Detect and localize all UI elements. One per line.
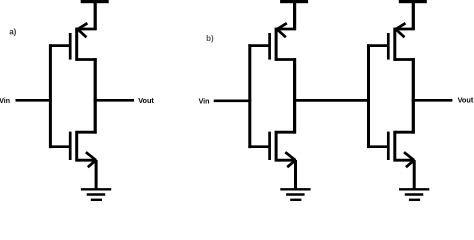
svg-text:a): a) <box>9 28 16 37</box>
wire input bus (inverter 1) <box>49 44 52 148</box>
svg-text:Vin: Vin <box>0 98 10 105</box>
wire input bus (inverter 2) <box>248 44 251 148</box>
transistor M2P (PMOS) <box>270 23 296 61</box>
wire VDD to PMOS M3P source <box>412 2 415 30</box>
VDD power symbol (inverter 1) <box>81 0 109 3</box>
wire Vin lead (inverter 2) <box>214 99 252 102</box>
wire VDD to PMOS M2P source <box>293 2 296 30</box>
svg-text:b): b) <box>206 34 214 43</box>
wire gate lead to PMOS M1P <box>49 44 70 47</box>
ground symbol (inverter 2) <box>280 189 310 200</box>
wire gate lead to PMOS M3P <box>367 44 388 47</box>
wire NMOS M1N source to ground <box>95 160 98 190</box>
wire gate lead to NMOS M2N <box>248 145 269 148</box>
svg-text:Vin: Vin <box>199 98 210 105</box>
ground symbol (inverter 3) <box>399 189 429 200</box>
transistor M3N (NMOS) <box>388 131 414 167</box>
wire NMOS M2N source to ground <box>294 160 297 190</box>
wire inverter 2 output to inverter 3 input <box>293 99 370 102</box>
wire output column node (inverter 1) <box>94 58 97 134</box>
wire VDD to PMOS M1P source <box>94 2 97 30</box>
wire Vin lead (inverter 1) <box>16 99 52 102</box>
wire output lead (inverter 3) <box>412 99 453 102</box>
VDD power symbol (inverter 2) <box>280 0 308 3</box>
svg-text:Vout: Vout <box>458 96 474 105</box>
transistor M1P (PMOS) <box>70 23 96 61</box>
VDD power symbol (inverter 3) <box>399 0 427 3</box>
transistor M3P (PMOS) <box>388 23 414 61</box>
svg-text:Vout: Vout <box>138 96 154 105</box>
transistor M1N (NMOS) <box>70 131 96 167</box>
wire gate lead to PMOS M2P <box>248 44 269 47</box>
wire output column node (inverter 2) <box>293 58 296 134</box>
transistor M2N (NMOS) <box>270 131 296 167</box>
wire output lead (inverter 1) <box>94 99 134 102</box>
ground symbol (inverter 1) <box>81 189 111 200</box>
wire gate lead to NMOS M3N <box>367 145 388 148</box>
wire gate lead to NMOS M1N <box>49 145 70 148</box>
wire output column node (inverter 3) <box>412 58 415 134</box>
wire NMOS M3N source to ground <box>413 160 416 190</box>
wire input bus (inverter 3) <box>367 44 370 148</box>
